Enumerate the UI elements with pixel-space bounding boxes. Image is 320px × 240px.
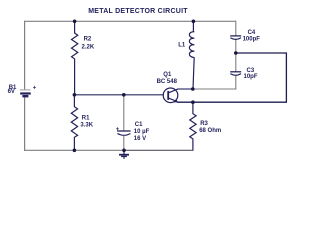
wire: right feedback loop (236, 53, 287, 102)
svg-text:2.2K: 2.2K (82, 44, 95, 50)
node: R1 bottom junction (73, 149, 77, 153)
wire: C1 top lead (123, 95, 125, 131)
node: ground junction (122, 149, 126, 153)
wire: emitter rail (177, 101, 287, 103)
wire: left rail lower (24, 97, 26, 151)
resistor R2 (72, 21, 95, 95)
svg-text:R3: R3 (200, 121, 208, 127)
capacitor C3 (230, 68, 258, 80)
transistor Q1 (157, 72, 178, 103)
battery B1 (8, 85, 37, 96)
resistor R3 (190, 102, 221, 150)
wire: C3 bottom lead (235, 76, 237, 90)
wire: collector lead (177, 88, 193, 90)
node: R2 top junction (73, 20, 77, 24)
wire: C4 bottom lead (235, 40, 237, 53)
svg-text:+: + (116, 127, 120, 133)
wire: base rail (74, 94, 164, 96)
svg-text:+: + (33, 85, 37, 91)
svg-text:C1: C1 (135, 122, 143, 128)
svg-text:R2: R2 (84, 36, 92, 42)
node: C4-C3 junction (234, 51, 238, 55)
wire: C3 top lead (235, 53, 237, 72)
svg-text:100pF: 100pF (243, 37, 261, 43)
svg-text:L1: L1 (178, 43, 186, 49)
inductor L1 (178, 21, 194, 89)
wire: C4 top lead (235, 21, 237, 36)
capacitor C1 (116, 122, 150, 151)
svg-text:C4: C4 (248, 30, 256, 36)
node: collector junction L1 (191, 87, 195, 91)
svg-text:METAL DETECTOR CIRCUIT: METAL DETECTOR CIRCUIT (88, 8, 188, 15)
node: L1 top junction (192, 20, 196, 24)
svg-text:3.3K: 3.3K (80, 122, 93, 128)
resistor R1 (71, 95, 93, 151)
node: base junction C1 (122, 93, 126, 97)
svg-text:R1: R1 (82, 115, 90, 121)
svg-text:68 Ohm: 68 Ohm (199, 128, 221, 134)
node: emitter junction R3 (191, 100, 195, 104)
capacitor C4 (230, 30, 260, 43)
wire: left rail upper (24, 21, 26, 90)
svg-text:16 V: 16 V (134, 136, 146, 142)
svg-text:Q1: Q1 (163, 72, 172, 78)
wire: bottom rail right (124, 149, 194, 151)
wire: collector rail (193, 88, 236, 90)
wire: bottom rail left (24, 149, 124, 151)
wire: top rail (25, 20, 236, 22)
svg-text:6V: 6V (8, 89, 15, 95)
ground (119, 150, 129, 158)
svg-text:10 µF: 10 µF (134, 129, 150, 135)
node: base junction R2/R1 (73, 93, 77, 97)
svg-text:10pF: 10pF (244, 74, 258, 80)
svg-text:BC 548: BC 548 (157, 79, 178, 85)
